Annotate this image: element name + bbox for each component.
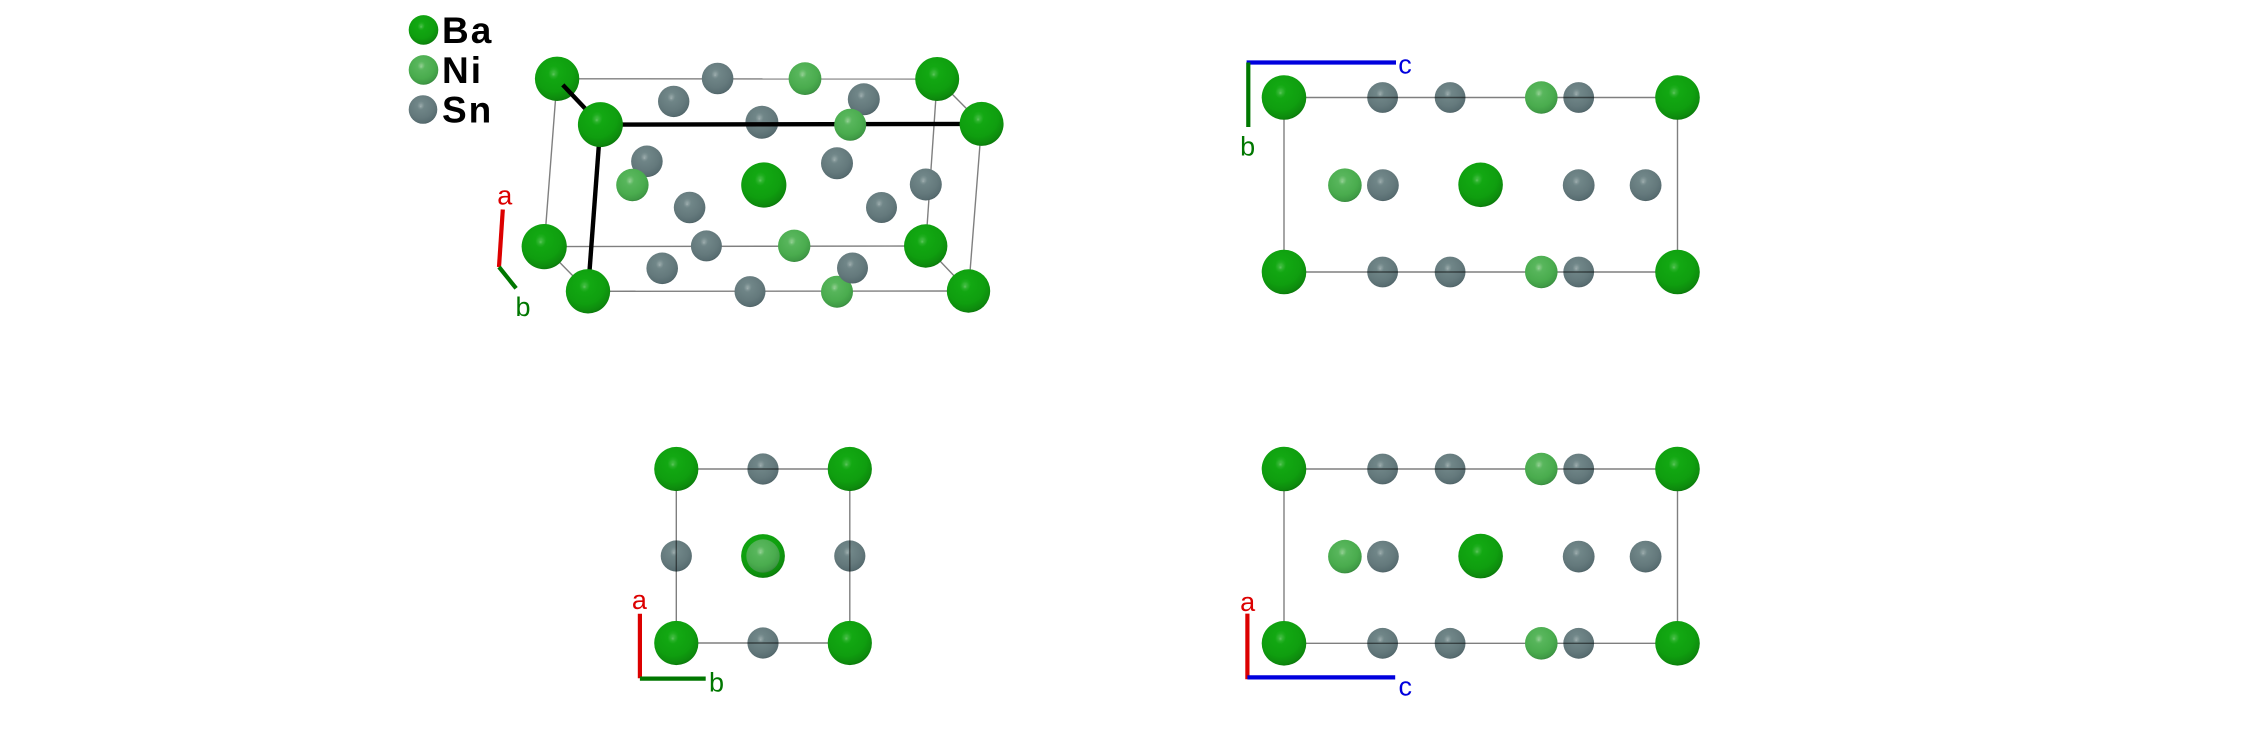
3D view Ni atom on back-bottom edge (778, 230, 810, 262)
b-c projection Ni atom middle row (1328, 168, 1362, 202)
a-c projection Ni atom bottom edge (1525, 627, 1558, 660)
3D view unit cell edge front-right (969, 124, 982, 291)
3D view Sn atom below mid-left pair (674, 192, 706, 224)
b-c projection axis c line (blue) (1247, 60, 1396, 64)
3D view Sn atom mid-right upper (821, 147, 853, 179)
3D view Ba atom corner front-top-left (578, 102, 623, 147)
b-c projection Ba atom corner (1262, 75, 1307, 120)
3D view Sn atom upper-left interior (658, 86, 689, 117)
3D view unit cell edge back-right (926, 79, 938, 246)
3D view Sn atom on back-bottom edge (691, 230, 722, 261)
a-c projection Sn atom top edge (1435, 454, 1466, 485)
3D view Sn atom mid-left pair back (631, 146, 663, 178)
a-b projection unit cell edge right (849, 469, 851, 643)
3D view thick cell vector c (front-top edge) (600, 122, 981, 127)
b-c projection Sn atom bottom edge (1367, 257, 1398, 288)
3D view unit cell edge back-left (544, 79, 557, 247)
a-c projection Sn atom middle row (1367, 541, 1399, 573)
a-c projection Ni atom middle row (1328, 540, 1362, 574)
a-b projection unit cell edge left (675, 469, 677, 643)
b-c projection Ni atom bottom edge (1525, 256, 1558, 289)
3D view Ba atom corner front-bottom-right (947, 269, 990, 312)
a-c projection Sn atom middle row (1563, 541, 1595, 573)
a-c projection Ba atom corner (1262, 621, 1307, 666)
a-c projection unit cell edge right (1677, 469, 1679, 643)
a-b projection Sn atom top edge (747, 453, 778, 484)
a-c projection Sn atom top edge (1563, 454, 1594, 485)
b-c projection Sn atom bottom edge (1563, 257, 1594, 288)
3D view Ba atom corner back-bottom-right (904, 224, 947, 267)
3D view thick cell vector a (front-left edge) (588, 125, 600, 292)
a-c projection unit cell edge bottom (1284, 642, 1678, 644)
3D view unit cell edge top-right (937, 79, 981, 124)
3D view Ba atom corner front-top-right (960, 102, 1004, 146)
3D view unit cell edge back-top (557, 78, 937, 80)
3D view thick cell vector b (origin corner diagonal) (563, 85, 601, 125)
b-c projection Ba atom corner (1655, 75, 1700, 120)
b-c projection Ba atom middle row (1458, 163, 1503, 208)
3D view unit cell edge bottom-right (926, 246, 969, 291)
3D view Ba atom corner back-top-left (535, 57, 579, 101)
3D view unit cell edge front-bottom (588, 290, 969, 292)
a-b projection Sn atom bottom edge (747, 627, 778, 658)
svg-text:b: b (709, 667, 724, 697)
3D view Sn atom on front-bottom edge (735, 276, 766, 307)
3D view Sn atom lower-right interior (837, 253, 868, 284)
a-c projection Ni atom top edge (1525, 453, 1558, 486)
a-c projection axis c line (blue) (1247, 675, 1395, 679)
a-c projection Ba atom middle row (1458, 534, 1503, 579)
a-b projection Sn atom right edge (834, 540, 865, 571)
b-c projection axis b line (green) (1246, 63, 1250, 128)
b-c projection unit cell edge left (1283, 98, 1285, 273)
svg-text:b: b (515, 292, 530, 322)
3D view Ni atom on back-top edge (789, 62, 822, 95)
a-c projection axis a line (red) (1245, 614, 1249, 680)
3D view axis b line (green) (499, 267, 516, 288)
legend Sn sphere (409, 95, 438, 124)
b-c projection Sn atom bottom edge (1435, 257, 1466, 288)
a-c projection Ba atom corner (1655, 447, 1700, 492)
b-c projection Sn atom top edge (1367, 82, 1398, 113)
a-c projection Ba atom corner (1655, 621, 1700, 666)
3D view Ba atom corner front-bottom-left (566, 269, 610, 313)
a-b projection unit cell edge bottom (676, 642, 850, 644)
3D view Ba atom corner back-bottom-left (522, 224, 567, 269)
a-b projection Sn atom left edge (661, 540, 692, 571)
3D view Sn atom on front-top edge (745, 106, 778, 139)
3D view axis a line (red) (499, 210, 503, 268)
svg-text:Sn: Sn (442, 89, 493, 130)
svg-text:Ba: Ba (442, 10, 493, 51)
b-c projection Sn atom middle row (1563, 169, 1595, 201)
svg-text:Ni: Ni (442, 50, 483, 91)
a-b projection Ni atom center front (746, 539, 779, 572)
b-c projection unit cell edge top (1284, 97, 1678, 99)
a-c projection Sn atom bottom edge (1563, 628, 1594, 659)
a-c projection unit cell edge top (1284, 468, 1678, 470)
svg-text:c: c (1399, 671, 1413, 701)
b-c projection Sn atom middle row (1630, 169, 1662, 201)
3D view Sn atom lower-left interior (646, 252, 678, 284)
a-c projection Sn atom bottom edge (1435, 628, 1466, 659)
3D view Ba atom center (741, 162, 786, 207)
svg-text:c: c (1398, 50, 1412, 80)
legend Ni sphere (409, 55, 439, 85)
a-c projection Ba atom corner (1262, 447, 1307, 492)
b-c projection unit cell edge bottom (1284, 271, 1678, 273)
3D view Sn atom mid-right lower (866, 192, 897, 223)
a-c projection Sn atom top edge (1367, 454, 1398, 485)
b-c projection Ba atom corner (1262, 250, 1307, 295)
svg-text:a: a (632, 585, 648, 615)
svg-text:a: a (497, 180, 513, 210)
b-c projection Sn atom top edge (1563, 82, 1594, 113)
a-b projection Ba atom corner (828, 447, 872, 491)
svg-text:a: a (1240, 587, 1256, 617)
a-b projection Ba atom corner (654, 621, 698, 665)
a-b projection Ba atom corner (828, 621, 872, 665)
3D view Ni atom on front-top edge (834, 109, 866, 141)
b-c projection Ba atom corner (1655, 250, 1700, 295)
a-c projection unit cell edge left (1283, 469, 1285, 643)
svg-text:b: b (1240, 132, 1255, 162)
3D view Sn atom right interior (910, 169, 942, 201)
a-c projection Sn atom bottom edge (1367, 628, 1398, 659)
a-c projection Sn atom middle row (1630, 541, 1662, 573)
b-c projection Sn atom top edge (1435, 82, 1466, 113)
3D view Ni atom mid-left pair front (616, 169, 648, 201)
legend Ba sphere (409, 15, 439, 45)
a-b projection unit cell edge top (676, 468, 850, 470)
3D view Sn atom on back-top edge (702, 63, 734, 95)
b-c projection Sn atom middle row (1367, 169, 1399, 201)
3D view Ba atom corner back-top-right (915, 57, 959, 101)
3D view unit cell edge back-bottom (544, 245, 926, 248)
a-b projection axis a line (red) (638, 614, 642, 678)
b-c projection unit cell edge right (1677, 98, 1679, 273)
3D view Sn atom upper-right interior (848, 83, 880, 115)
a-b projection axis b line (green) (640, 676, 706, 680)
b-c projection Ni atom top edge (1525, 81, 1558, 114)
3D view Ni atom on front-bottom edge (821, 276, 853, 308)
a-b projection Ba atom center behind (741, 534, 785, 578)
3D view unit cell edge bottom-left (544, 247, 588, 292)
a-b projection Ba atom corner (654, 447, 698, 491)
